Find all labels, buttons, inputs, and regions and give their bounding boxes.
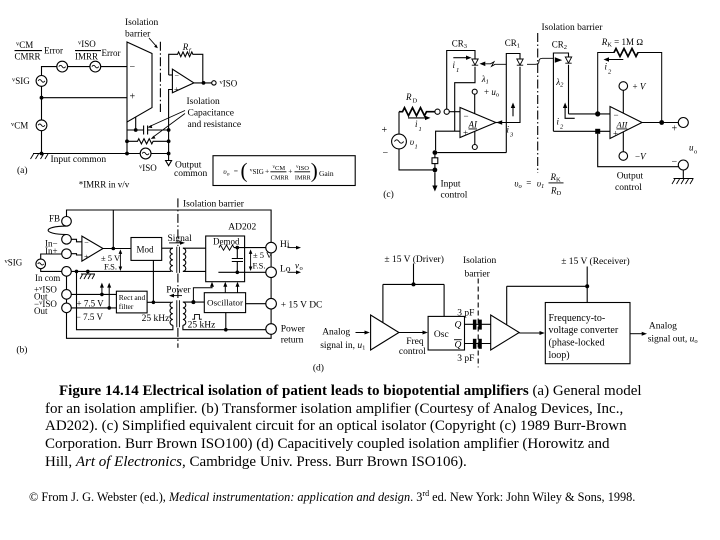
- svg-text:+ 15 V DC: + 15 V DC: [281, 300, 323, 310]
- node: [112, 247, 116, 251]
- transformer T1 signal: primary coil: [170, 248, 173, 271]
- wire: input common rail: [33, 153, 169, 155]
- svg-text:± 15 V (Driver): ± 15 V (Driver): [384, 254, 443, 265]
- wire: rect box to power transformer primary: [147, 301, 171, 303]
- wire: amp to osc with arrow: [399, 332, 424, 334]
- resistor inside demod: [219, 245, 234, 250]
- svg-text:−: −: [383, 148, 389, 159]
- label: *IMRR in v/v: [79, 180, 130, 190]
- svg-text:In com: In com: [35, 273, 60, 283]
- terminal Hi: [266, 242, 277, 253]
- node: [412, 282, 416, 286]
- Osc box: [428, 316, 464, 350]
- svg-text:barrier: barrier: [125, 30, 151, 40]
- label: Isolation barrier (b): [183, 200, 245, 210]
- bracket +-5V F.S. (demod): [250, 252, 252, 269]
- svg-text:2: 2: [608, 69, 612, 76]
- svg-text:υo: υo: [223, 167, 229, 178]
- svg-text:control: control: [399, 347, 426, 357]
- svg-text:vISO: vISO: [78, 39, 96, 49]
- label RK = 1M ohm: [601, 37, 644, 49]
- svg-text:*IMRR in v/v: *IMRR in v/v: [79, 180, 130, 190]
- svg-text:Input common: Input common: [51, 155, 107, 165]
- svg-text:vISO: vISO: [296, 165, 309, 172]
- wire: Hi-Lo-+15-return vertical: [270, 253, 272, 324]
- wire: -vISO to power return (bottom rail C): [67, 313, 272, 339]
- svg-text:−: −: [130, 62, 136, 73]
- svg-text:AI: AI: [468, 120, 478, 130]
- node: [191, 300, 195, 304]
- wire: common rail to transformer: [71, 270, 171, 272]
- labels +7.5V -7.5V: [76, 298, 104, 322]
- svg-text:v: v: [295, 261, 299, 271]
- op-amp (b): [82, 236, 103, 261]
- svg-text:signal in, u1: signal in, u1: [320, 341, 365, 352]
- label lambda1: [481, 74, 489, 86]
- node: [236, 271, 240, 275]
- equation box (a): [213, 156, 355, 186]
- svg-text:2: 2: [560, 124, 564, 131]
- label: Analog signal in: [320, 327, 365, 351]
- node + up arrow: [100, 293, 104, 297]
- svg-text:R: R: [405, 92, 412, 102]
- source vISO/IMRR error (AC circle): [90, 61, 101, 72]
- wire: feedback to top rail: [112, 210, 114, 249]
- label: (a): [17, 165, 28, 176]
- wire: FB to top rail to Hi: [67, 210, 272, 242]
- wire: AI output to CR1: [496, 122, 499, 124]
- wire: op-amp out to Mod: [103, 248, 131, 250]
- isolation barrier dash-dot line (c): [537, 33, 539, 173]
- isolation capacitance (capacitor): [127, 126, 169, 135]
- node: output: [202, 81, 206, 85]
- wire: + input: [436, 131, 460, 150]
- label: vCM/CMRR Error: [15, 40, 64, 62]
- amplifier A1 (driver): [371, 315, 399, 350]
- svg-text:CR3: CR3: [452, 39, 467, 51]
- arrows oscillator to demod: [225, 284, 237, 292]
- wire: In com to +vISO to -vISO: [66, 276, 68, 303]
- svg-text:(: (: [241, 159, 248, 183]
- svg-text:vSIG: vSIG: [250, 168, 264, 177]
- arrowhead at AI output: [496, 120, 502, 125]
- wire: up to Mod: [152, 260, 154, 302]
- svg-text:RK: RK: [550, 172, 562, 184]
- credit line: [29, 489, 635, 505]
- svg-text:− 7.5 V: − 7.5 V: [76, 312, 104, 322]
- ground (b): [81, 271, 95, 274]
- terminal Power return: [266, 324, 277, 335]
- wire: +vISO to rect and filter: [71, 293, 116, 295]
- svg-text:Osc: Osc: [434, 330, 449, 340]
- label (d): [313, 363, 324, 374]
- svg-text:FB: FB: [49, 214, 60, 224]
- current arrow i2 (under RK): [607, 59, 623, 61]
- label +-15 V (Receiver): [561, 256, 629, 267]
- frequency-to-voltage converter box: [545, 303, 630, 364]
- input control arrow: [434, 172, 436, 187]
- label CR2: [552, 40, 567, 52]
- svg-text:Power: Power: [281, 324, 306, 334]
- label +-15 V (Driver): [384, 254, 443, 265]
- wire: CR2 to AII inputs: [553, 114, 610, 131]
- leader arrow to barrier line: [149, 38, 157, 47]
- svg-text:+: +: [84, 253, 89, 262]
- node: + input (square): [595, 129, 600, 134]
- wire: AII output: [642, 122, 678, 124]
- wire: vSIG to + line: [42, 86, 128, 97]
- terminal: vISO output: [212, 81, 216, 85]
- label CR3: [452, 39, 467, 51]
- svg-text:Isolation barrier: Isolation barrier: [542, 23, 604, 33]
- svg-text:Signal: Signal: [168, 234, 193, 244]
- current arrow i3: [512, 106, 514, 116]
- wire: - input: [449, 111, 460, 113]
- svg-text:1: 1: [415, 144, 418, 151]
- svg-text:filter: filter: [119, 302, 134, 311]
- wire: input common to power primary (bottom rail A): [77, 271, 173, 329]
- ground: input common: [31, 154, 49, 159]
- diode CR3: [472, 59, 478, 65]
- terminal +vISO Out: [62, 290, 72, 300]
- wire: trapezoid bottom to capacitor rail: [135, 117, 137, 130]
- figure caption: [45, 383, 705, 472]
- node: [134, 128, 138, 132]
- wire: output: [194, 82, 212, 84]
- svg-text:vSIG: vSIG: [12, 76, 30, 86]
- svg-text:−: −: [672, 157, 678, 168]
- svg-text:υ1: υ1: [537, 179, 544, 191]
- transformer T2 secondary coil: [183, 302, 186, 325]
- svg-text:Error: Error: [44, 46, 63, 56]
- svg-text:υ: υ: [410, 137, 414, 147]
- label: Isolation barrier (d): [463, 256, 496, 279]
- nodes on resistor rail: [125, 139, 129, 143]
- supply terminal -V: [619, 152, 628, 161]
- svg-text:−V: −V: [635, 152, 647, 162]
- wire: -vISO to rect and filter: [71, 307, 116, 309]
- wire: In- to op-amp: [71, 239, 82, 242]
- op-amp AI: [460, 108, 496, 138]
- wire: receiver supply: [507, 267, 588, 325]
- source vISO (AC circle): [140, 148, 151, 159]
- optical coupling arrow CR1 to CR3: [480, 62, 486, 67]
- svg-text:Capacitance: Capacitance: [188, 109, 234, 119]
- terminal FB: [62, 217, 72, 227]
- svg-text:Isolation barrier: Isolation barrier: [183, 200, 245, 210]
- current arrow i2 (left): [565, 106, 575, 118]
- terminal In com: [62, 267, 72, 277]
- wire: source top to RD: [398, 112, 400, 134]
- wire: down to vCM: [41, 98, 43, 120]
- wire and ground: [674, 170, 694, 179]
- source vCM/CMRR error (AC circle): [57, 61, 68, 72]
- svg-text:signal out, uo: signal out, uo: [648, 334, 698, 345]
- wire: demod to Lo: [245, 271, 266, 273]
- node: junction vSIG/+: [40, 96, 44, 100]
- label Q: [455, 321, 462, 351]
- capacitor 3pF bottom: [473, 339, 477, 349]
- wire: oscillator to +15V: [246, 303, 266, 305]
- wire: left rail below trapezoid: [126, 122, 128, 154]
- diode CR1: [517, 59, 523, 65]
- source vSIG: [12, 76, 30, 86]
- svg-text:1: 1: [419, 126, 422, 133]
- svg-text:−: −: [614, 110, 619, 120]
- svg-text:+: +: [265, 167, 269, 176]
- svg-text:3: 3: [509, 132, 514, 139]
- svg-text:vCM: vCM: [273, 165, 286, 172]
- input control node chain: [433, 150, 438, 155]
- bracket +-5V F.S. (op-amp): [119, 252, 121, 269]
- wire: vCM to input common: [41, 131, 43, 154]
- svg-text:Q: Q: [455, 321, 462, 331]
- svg-text:Lo: Lo: [280, 265, 291, 275]
- wire: vSIG bottom to In com: [41, 269, 62, 272]
- current arrow i1 (CR3): [453, 57, 467, 59]
- label Signal + arrow: [168, 234, 193, 244]
- label 25 kHz left: [142, 314, 170, 324]
- svg-text:RD: RD: [550, 186, 562, 198]
- wire: + input to - terminal: [598, 134, 679, 167]
- equation vo = v1 RK/RD: [514, 172, 561, 197]
- label Power + arrow: [166, 286, 191, 296]
- op-amp AI lower terminal: [472, 145, 477, 150]
- label (c): [383, 189, 394, 200]
- svg-text:+ uo: + uo: [484, 87, 499, 99]
- svg-text:Output: Output: [617, 172, 644, 182]
- svg-text:(d): (d): [313, 363, 324, 374]
- svg-text:Gain: Gain: [319, 169, 334, 178]
- capacitor 3pF top: [473, 320, 477, 330]
- svg-text:D: D: [413, 98, 418, 105]
- node: [659, 120, 664, 125]
- resistor Rf feedback: [182, 42, 192, 55]
- svg-text:IMRR: IMRR: [75, 52, 98, 62]
- node: - input: [595, 111, 600, 116]
- wire: source bottom to input control: [399, 149, 435, 170]
- svg-text:RK = 1M Ω: RK = 1M Ω: [601, 37, 644, 49]
- svg-text:vISO: vISO: [139, 163, 157, 173]
- leader arrows to cap and resistor: [150, 111, 186, 127]
- svg-text:common: common: [174, 169, 207, 179]
- svg-text:barrier: barrier: [465, 269, 491, 279]
- svg-text:CR2: CR2: [552, 40, 567, 52]
- wire: Mod to signal transformer: [162, 247, 173, 249]
- isolation amplifier trapezoid: [127, 42, 152, 122]
- svg-text:−: −: [175, 71, 180, 80]
- svg-text:AII: AII: [616, 120, 629, 130]
- output arrow: [630, 333, 643, 335]
- svg-text:Out: Out: [34, 306, 48, 316]
- wire: vSIG top to In+: [41, 254, 62, 259]
- svg-text:and resistance: and resistance: [188, 120, 242, 130]
- source vSIG (b): [5, 258, 23, 268]
- svg-text:± 5 V: ± 5 V: [253, 250, 273, 260]
- wire: CR1 loop: [499, 54, 520, 153]
- wire: secondary to oscillator: [183, 301, 204, 303]
- svg-text:Isolation: Isolation: [463, 256, 496, 266]
- isolation barrier dash-dot line (a): [159, 42, 161, 112]
- svg-text:Oscillator: Oscillator: [207, 298, 243, 308]
- svg-text:± 15 V (Receiver): ± 15 V (Receiver): [561, 256, 629, 267]
- current arrow i1: [408, 117, 427, 119]
- transformer T1 secondary coil: [183, 248, 186, 271]
- capacitor inside demod: [232, 248, 243, 273]
- svg-text:control: control: [615, 183, 642, 193]
- wire: - input stub: [169, 74, 173, 76]
- svg-text:+: +: [174, 85, 179, 94]
- node: [585, 284, 589, 288]
- terminal In+: [62, 249, 72, 259]
- svg-text:vSIG: vSIG: [5, 258, 23, 268]
- node: [167, 128, 171, 132]
- node + up arrow: [107, 306, 111, 310]
- transformer T2 power: primary coil: [170, 302, 173, 325]
- transformer T1 core: [177, 247, 180, 273]
- svg-text:o: o: [300, 265, 303, 272]
- source vCM: [11, 121, 28, 131]
- svg-text:(b): (b): [16, 345, 27, 356]
- svg-text:−: −: [84, 238, 89, 247]
- wire: In+ to op-amp: [71, 254, 82, 255]
- svg-text:(phase-locked: (phase-locked: [549, 338, 605, 349]
- labels 3 pF: [457, 308, 474, 363]
- svg-text:control: control: [441, 191, 468, 201]
- Oscillator box: [204, 293, 245, 313]
- node: [152, 301, 156, 305]
- wire: to CR1: [437, 152, 506, 154]
- wire: + input down to output common: [169, 90, 173, 161]
- label: Output control: [615, 172, 643, 194]
- svg-text:25 kHz: 25 kHz: [142, 314, 170, 324]
- svg-text:=: =: [526, 178, 531, 188]
- nodes on common rail: [75, 270, 79, 274]
- op-amp (a) output stage: [172, 69, 194, 93]
- output common terminal: [166, 161, 172, 166]
- svg-text:+ V: + V: [633, 82, 647, 92]
- wire: optical S-link CR1 to CR2: [527, 58, 553, 64]
- svg-text:vISO: vISO: [220, 79, 238, 89]
- connector circles on - input wire: [435, 109, 440, 114]
- svg-text:Analog: Analog: [649, 322, 677, 332]
- svg-text:3 pF: 3 pF: [457, 354, 474, 364]
- terminal In-: [62, 235, 72, 245]
- op-amp AII: [610, 107, 642, 139]
- svg-text:3 pF: 3 pF: [457, 308, 474, 318]
- supply terminal +V: [619, 82, 628, 91]
- svg-text:+ 7.5 V: + 7.5 V: [77, 298, 105, 308]
- wire: driver supply: [383, 264, 444, 323]
- wire: CR3 loop: [447, 51, 475, 132]
- label: vISO/IMRR Error: [75, 39, 121, 62]
- terminal: output -: [678, 160, 688, 170]
- svg-text:Analog: Analog: [322, 327, 350, 337]
- label: Isolation Capacitance and resistance: [187, 97, 242, 130]
- node on input common: [40, 152, 44, 156]
- terminal -vISO Out: [62, 303, 72, 313]
- Mod box: [131, 238, 162, 261]
- terminal: output +: [678, 118, 688, 128]
- isolation resistance (resistor): [127, 139, 169, 144]
- svg-text:1: 1: [456, 67, 459, 74]
- svg-text:Power: Power: [166, 286, 191, 296]
- label: Freq control: [399, 337, 426, 357]
- terminal +15 V DC: [266, 298, 277, 309]
- svg-text:Input: Input: [441, 180, 461, 190]
- node: [125, 152, 129, 156]
- wire: Q outputs: [465, 324, 491, 343]
- node: [167, 152, 171, 156]
- svg-text:AD202: AD202: [228, 223, 256, 233]
- svg-text:+: +: [130, 92, 136, 103]
- svg-text:o: o: [694, 149, 697, 156]
- amplifier A2 (receiver): [491, 315, 520, 350]
- svg-text:CMRR: CMRR: [271, 174, 290, 181]
- svg-text:+: +: [463, 128, 468, 138]
- input arrow: [356, 332, 366, 334]
- label CR1: [505, 38, 520, 50]
- svg-text:Q: Q: [455, 341, 462, 351]
- rect and filter box: [116, 291, 147, 313]
- svg-text:λ1: λ1: [481, 74, 489, 86]
- label: Input common: [51, 155, 107, 165]
- wire: oscillator bottom: [225, 313, 227, 330]
- light arrow inside CR2: [555, 57, 562, 63]
- resistor RK: [598, 49, 662, 123]
- wire: top input line: [42, 67, 128, 76]
- svg-text:+: +: [288, 167, 292, 176]
- lo line inside demod: [218, 271, 244, 273]
- svg-text:IMRR: IMRR: [295, 174, 312, 181]
- node: [236, 246, 240, 250]
- square wave symbol + 25 kHz right: [192, 314, 202, 319]
- label vo (b): [295, 261, 303, 273]
- label AD202: [228, 223, 256, 233]
- svg-text:F.S.: F.S.: [104, 261, 117, 271]
- svg-text:CR1: CR1: [505, 38, 520, 50]
- diode CR2: [565, 57, 571, 63]
- svg-text:loop): loop): [549, 350, 570, 361]
- isolation barrier dashed line (d): [477, 279, 479, 368]
- svg-text:F.S.: F.S.: [253, 260, 266, 270]
- label: Analog signal out: [648, 322, 698, 345]
- svg-text:voltage converter: voltage converter: [549, 325, 619, 336]
- wire: secondary to demod: [183, 248, 206, 271]
- label: Isolation barrier (a): [125, 18, 158, 40]
- svg-text:+: +: [382, 125, 388, 136]
- isolation barrier dash-dot line (b): [177, 198, 179, 347]
- svg-text:Rect and: Rect and: [119, 293, 146, 302]
- wire: FB arc to In-: [48, 226, 66, 234]
- label (b): [16, 345, 27, 356]
- svg-text:λ2: λ2: [555, 77, 564, 89]
- transformer T2 core: [177, 300, 180, 327]
- Demod box: [206, 236, 245, 282]
- svg-text:): ): [311, 159, 318, 183]
- svg-text:=: =: [234, 167, 238, 176]
- wire: power secondary to return rail B: [183, 325, 266, 329]
- svg-text:In+: In+: [45, 246, 58, 256]
- svg-text:Isolation: Isolation: [187, 97, 220, 107]
- terminal circle + uo: [472, 89, 477, 94]
- svg-text:υo: υo: [514, 179, 522, 191]
- wire: demod to Hi: [234, 247, 266, 249]
- svg-text:+: +: [672, 124, 678, 135]
- svg-text:Freq: Freq: [406, 337, 424, 347]
- svg-text:return: return: [281, 335, 304, 345]
- label: Isolation barrier (c): [542, 23, 604, 33]
